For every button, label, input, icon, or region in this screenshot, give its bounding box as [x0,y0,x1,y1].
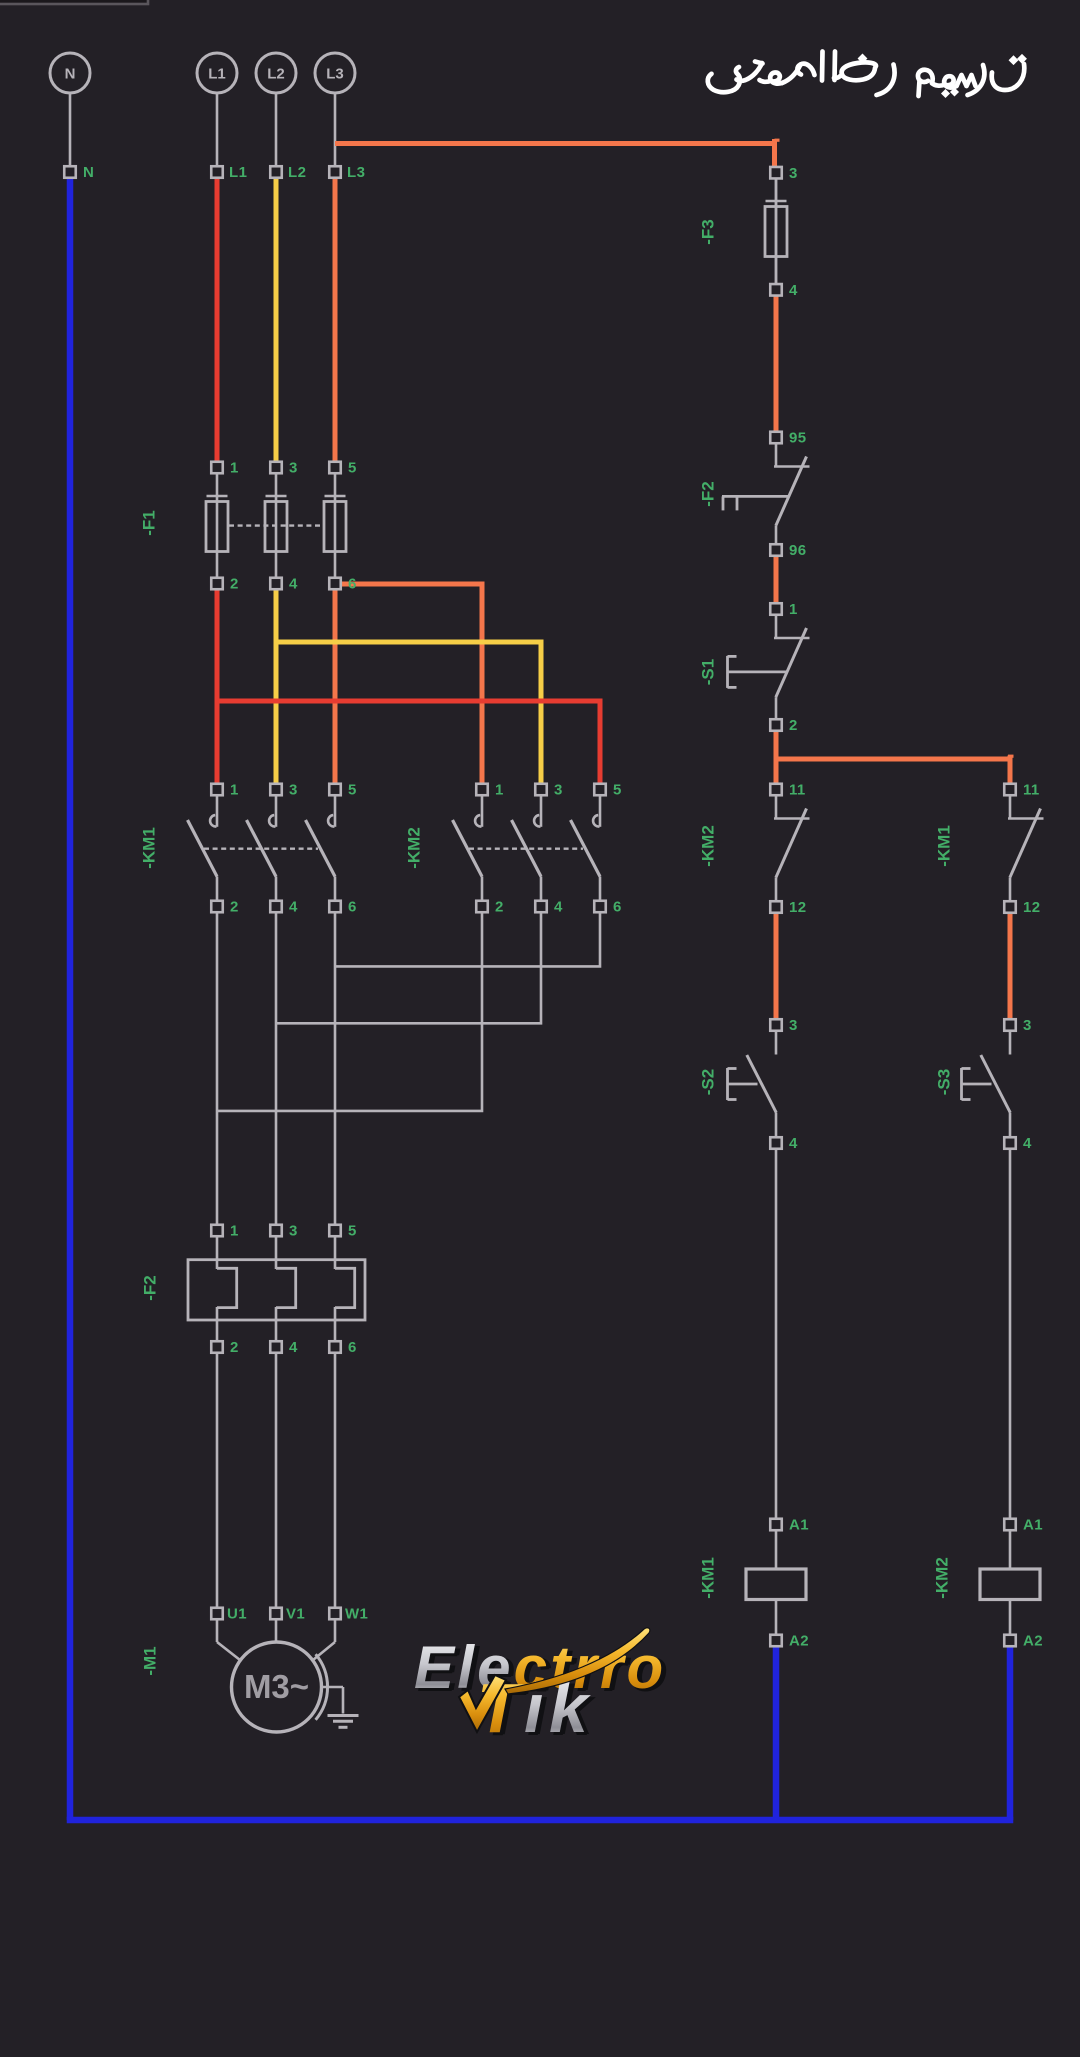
svg-text:2: 2 [789,717,798,734]
svg-text:3: 3 [789,165,798,182]
svg-text:L3: L3 [347,164,365,181]
svg-text:V1: V1 [286,1606,305,1623]
svg-text:A2: A2 [1023,1633,1043,1650]
svg-text:2: 2 [495,899,504,916]
svg-text:-M1: -M1 [141,1646,160,1675]
svg-text:-KM2: -KM2 [405,827,424,869]
svg-text:6: 6 [348,576,357,593]
svg-text:6: 6 [348,899,357,916]
svg-text:3: 3 [554,782,563,799]
svg-text:-F1: -F1 [140,510,159,536]
svg-text:-F3: -F3 [699,219,718,245]
svg-text:L1: L1 [208,66,226,83]
svg-text:5: 5 [613,782,622,799]
svg-text:-F2: -F2 [699,481,718,507]
svg-text:-S2: -S2 [699,1069,718,1095]
svg-text:1: 1 [230,1223,239,1240]
svg-text:-KM1: -KM1 [699,1557,718,1599]
svg-text:1: 1 [789,601,798,618]
svg-text:L2: L2 [267,66,285,83]
svg-text:4: 4 [1023,1135,1032,1152]
svg-text:-S1: -S1 [699,659,718,685]
svg-text:3: 3 [1023,1017,1032,1034]
svg-text:3: 3 [289,782,298,799]
svg-text:U1: U1 [227,1606,247,1623]
svg-text:-KM2: -KM2 [699,825,718,867]
svg-text:-KM1: -KM1 [140,827,159,869]
svg-text:5: 5 [348,1223,357,1240]
svg-text:4: 4 [554,899,563,916]
svg-text:N: N [65,66,76,83]
svg-text:1: 1 [495,782,504,799]
svg-text:2: 2 [230,899,239,916]
svg-text:96: 96 [789,542,807,559]
svg-text:4: 4 [289,899,298,916]
svg-text:A1: A1 [1023,1517,1043,1534]
svg-text:5: 5 [348,782,357,799]
svg-text:-S3: -S3 [935,1069,954,1095]
svg-text:95: 95 [789,430,807,447]
svg-text:11: 11 [1023,782,1040,799]
svg-text:3: 3 [289,460,298,477]
svg-text:4: 4 [789,282,798,299]
svg-text:3: 3 [289,1223,298,1240]
svg-text:L3: L3 [326,66,344,83]
svg-text:L1: L1 [229,164,247,181]
svg-text:12: 12 [789,899,807,916]
svg-text:12: 12 [1023,899,1041,916]
svg-text:L2: L2 [288,164,306,181]
svg-text:4: 4 [289,576,298,593]
svg-text:A2: A2 [789,1633,809,1650]
svg-text:6: 6 [613,899,622,916]
svg-text:1: 1 [230,782,239,799]
svg-text:2: 2 [230,1339,239,1356]
svg-text:-KM1: -KM1 [935,825,954,867]
svg-text:-KM2: -KM2 [933,1557,952,1599]
svg-text:4: 4 [289,1339,298,1356]
svg-text:11: 11 [789,782,806,799]
svg-text:3: 3 [789,1017,798,1034]
svg-text:2: 2 [230,576,239,593]
svg-text:N: N [83,164,94,181]
svg-text:W1: W1 [345,1606,368,1623]
svg-text:M3~: M3~ [244,1668,309,1705]
svg-text:1: 1 [230,460,239,477]
svg-text:4: 4 [789,1135,798,1152]
svg-text:A1: A1 [789,1517,809,1534]
svg-text:6: 6 [348,1339,357,1356]
svg-text:5: 5 [348,460,357,477]
svg-text:-F2: -F2 [141,1275,160,1301]
